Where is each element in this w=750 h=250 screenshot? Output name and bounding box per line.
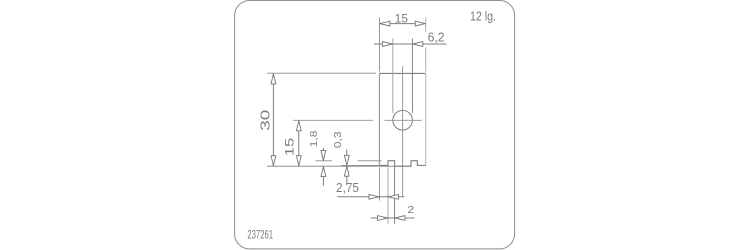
part outline: top edge: [379, 72, 425, 74]
dim 2,75 line: [337, 196, 404, 198]
svg-text:15: 15: [395, 12, 409, 26]
dim 2,75 arrow right: [388, 194, 398, 199]
bottom datum extension line: [267, 165, 411, 167]
dim 0,3 arrow upper: [344, 155, 349, 165]
hole horizontal centerline: [293, 119, 422, 121]
dim 6,2 (hole) extension lines: [392, 39, 394, 114]
svg-text:237261: 237261: [247, 227, 273, 241]
dim 30 arrow top: [271, 74, 276, 84]
dim 0,3 arrow lower: [344, 166, 349, 176]
dim 6,2 arrow left: [382, 42, 392, 47]
part outline: right edge: [425, 73, 427, 165]
dim 15v arrow top: [296, 121, 301, 131]
dim 30 extension line top: [267, 72, 376, 74]
dim 2,75 extension lines: [378, 168, 380, 201]
dim 2 line: [371, 217, 415, 219]
dim 1,8 arrow upper: [321, 150, 326, 160]
dim 30 line: [272, 73, 274, 166]
dim 15 (vertical) line: [298, 120, 300, 166]
dim 15 arrow left: [380, 21, 390, 26]
dim 15 (top width) line: [379, 23, 425, 25]
dim 15 arrow right: [415, 21, 425, 26]
dim 1,8 arrow lower: [321, 167, 326, 177]
dim 15 (top width) extension lines: [378, 18, 380, 72]
hole: [393, 110, 413, 130]
sheet border: [235, 1, 515, 249]
dim 0,3 extension line: [341, 164, 379, 166]
svg-text:30: 30: [259, 110, 273, 131]
svg-text:12 lg.: 12 lg.: [470, 9, 496, 23]
dim 0,3 line: [346, 150, 348, 186]
dim 2,75 arrow left: [369, 194, 379, 199]
dim 30 arrow bottom: [271, 156, 276, 166]
part outline: bottom edge with notches: [379, 161, 425, 166]
svg-text:0,3: 0,3: [333, 131, 344, 148]
svg-text:1,8: 1,8: [309, 130, 320, 147]
svg-text:6,2: 6,2: [428, 30, 445, 45]
dim 15v arrow bottom: [296, 156, 301, 166]
svg-text:2: 2: [407, 205, 414, 216]
dim 1,8 extension line: [316, 160, 382, 162]
svg-text:2,75: 2,75: [336, 180, 359, 195]
dim 1,8 line: [322, 148, 324, 186]
dim 2 arrow right: [395, 216, 405, 221]
dim 2 arrow left: [378, 216, 388, 221]
dim 6,2 arrow right: [413, 42, 423, 47]
hole vertical centerline: [402, 66, 404, 196]
part outline: left edge: [378, 73, 380, 165]
dim 6,2 line: [374, 43, 447, 45]
svg-text:15: 15: [283, 137, 297, 156]
